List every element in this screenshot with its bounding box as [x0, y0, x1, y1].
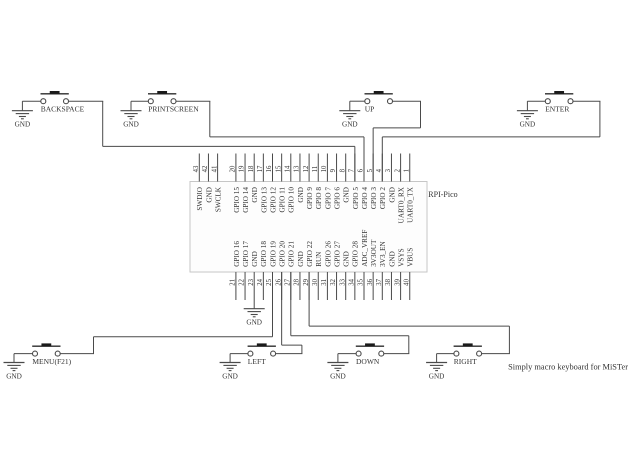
- pin 38 (GND) bottom: [385, 251, 396, 300]
- pin 32 (GPIO 27) bottom: [330, 241, 341, 300]
- wire SW3 GND riser: [349, 101, 351, 111]
- ground symbol (SW5): [4, 363, 25, 381]
- svg-text:40: 40: [403, 278, 410, 285]
- pushbutton SW7 (DOWN): [338, 343, 409, 366]
- svg-text:GPIO 26: GPIO 26: [324, 241, 332, 267]
- svg-text:33: 33: [339, 278, 346, 285]
- pin 7 (GPIO 5) top: [349, 154, 360, 210]
- ground symbol (IC): [244, 309, 265, 327]
- svg-text:VSYS: VSYS: [398, 248, 406, 266]
- svg-text:GPIO 6: GPIO 6: [333, 187, 341, 210]
- pin 31 (GPIO 26) bottom: [321, 241, 332, 300]
- svg-text:UP: UP: [365, 105, 375, 114]
- svg-text:GND: GND: [123, 121, 139, 129]
- svg-text:24: 24: [257, 278, 264, 285]
- wire SW6 GND riser: [229, 354, 231, 363]
- svg-text:GPIO 20: GPIO 20: [279, 241, 287, 267]
- pin 41 (SWCLK) top: [211, 154, 222, 213]
- svg-text:RPI-Pico: RPI-Pico: [428, 190, 457, 199]
- svg-text:GND: GND: [297, 187, 305, 203]
- pin 10 (GPIO 7) top: [321, 154, 332, 210]
- ground symbol (SW1): [12, 111, 33, 129]
- svg-text:GPIO 28: GPIO 28: [352, 241, 360, 267]
- wire pin 23 to ground: [253, 300, 255, 309]
- wire MENU(F21) to pin 25: [94, 272, 273, 354]
- svg-text:32: 32: [330, 278, 337, 285]
- svg-text:GND: GND: [251, 187, 259, 203]
- pin 28 (GND) bottom: [294, 251, 305, 300]
- pin 37 (3V3_EN) bottom: [376, 240, 387, 300]
- pushbutton SW1 (BACKSPACE): [22, 91, 103, 114]
- svg-text:GPIO 2: GPIO 2: [379, 187, 387, 210]
- ground symbol (SW2): [121, 111, 142, 129]
- svg-text:15: 15: [275, 165, 282, 172]
- wire UP to pin 5: [373, 101, 420, 181]
- svg-text:34: 34: [349, 278, 356, 285]
- svg-text:GPIO 3: GPIO 3: [370, 187, 378, 210]
- ground symbol (SW7): [327, 363, 348, 381]
- ground symbol (SW3): [339, 111, 360, 129]
- svg-text:3: 3: [385, 168, 392, 172]
- svg-text:SWDIO: SWDIO: [196, 187, 204, 211]
- pin 8 (GND) top: [339, 154, 350, 203]
- svg-text:16: 16: [266, 165, 273, 172]
- svg-text:36: 36: [367, 278, 374, 285]
- svg-text:13: 13: [294, 165, 301, 172]
- svg-text:41: 41: [211, 166, 218, 173]
- svg-text:BACKSPACE: BACKSPACE: [41, 105, 85, 114]
- pin 16 (GPIO 12) top: [266, 154, 277, 213]
- pin 22 (GPIO 17) bottom: [239, 241, 250, 300]
- IC U1 RPI-Pico body: [190, 182, 427, 273]
- svg-text:12: 12: [303, 165, 310, 172]
- pin 6 (GPIO 4) top: [358, 154, 369, 210]
- wire ENTER to pin 4: [382, 101, 600, 181]
- svg-text:GPIO 12: GPIO 12: [269, 187, 277, 213]
- svg-text:9: 9: [330, 168, 337, 172]
- svg-text:GPIO 22: GPIO 22: [306, 241, 314, 267]
- svg-text:GPIO 4: GPIO 4: [361, 187, 369, 210]
- pin 20 (GPIO 15) top: [230, 154, 241, 213]
- pin 15 (GPIO 11) top: [275, 154, 286, 213]
- svg-text:17: 17: [257, 165, 264, 172]
- pin 19 (GPIO 14) top: [239, 154, 250, 213]
- wire SW7 GND riser: [337, 354, 339, 363]
- svg-text:GPIO 19: GPIO 19: [269, 241, 277, 267]
- pushbutton SW4 (ENTER): [527, 91, 600, 114]
- svg-text:GND: GND: [388, 251, 396, 267]
- pin 27 (GPIO 21) bottom: [285, 241, 296, 300]
- svg-text:10: 10: [321, 165, 328, 172]
- svg-text:37: 37: [376, 278, 383, 285]
- pin 34 (GPIO 28) bottom: [349, 241, 360, 300]
- pin 40 (VBUS) bottom: [403, 248, 414, 300]
- svg-text:VBUS: VBUS: [407, 248, 415, 267]
- wire DOWN to pin 27: [291, 272, 409, 354]
- svg-text:20: 20: [230, 165, 237, 172]
- svg-text:39: 39: [394, 278, 401, 285]
- svg-text:14: 14: [285, 165, 292, 172]
- svg-text:28: 28: [294, 278, 301, 285]
- svg-text:35: 35: [358, 278, 365, 285]
- pin 33 (GND) bottom: [339, 251, 350, 300]
- wire PRINTSCREEN to pin 6: [210, 101, 364, 181]
- svg-text:GPIO 9: GPIO 9: [306, 187, 314, 210]
- svg-text:GND: GND: [251, 251, 259, 267]
- pushbutton SW8 (RIGHT): [437, 343, 510, 366]
- svg-text:UART0_RX: UART0_RX: [398, 186, 406, 223]
- pin 23 (GND) bottom: [248, 251, 259, 300]
- svg-text:GPIO 13: GPIO 13: [260, 187, 268, 213]
- pin 1 (UART0_TX) top: [403, 154, 414, 223]
- pin 11 (GPIO 8) top: [312, 154, 323, 210]
- svg-text:22: 22: [239, 278, 246, 285]
- pin 14 (GPIO 10) top: [285, 154, 296, 213]
- svg-text:GPIO 11: GPIO 11: [279, 187, 287, 213]
- svg-text:GND: GND: [342, 121, 358, 129]
- svg-text:GND: GND: [388, 187, 396, 203]
- pushbutton SW5 (MENU(F21)): [14, 343, 94, 366]
- svg-text:DOWN: DOWN: [356, 357, 380, 366]
- svg-text:8: 8: [339, 168, 346, 172]
- pin 12 (GPIO 9) top: [303, 154, 314, 210]
- ground symbol (SW8): [426, 363, 447, 381]
- pin 21 (GPIO 16) bottom: [230, 241, 241, 300]
- pin 30 (RUN) bottom: [312, 251, 323, 300]
- pushbutton SW6 (LEFT): [230, 343, 302, 366]
- svg-text:ADC_VREF: ADC_VREF: [361, 230, 369, 267]
- svg-text:21: 21: [230, 279, 237, 286]
- svg-text:MENU(F21): MENU(F21): [32, 357, 71, 366]
- wire SW1 GND riser: [21, 101, 23, 111]
- pin 35 (ADC_VREF) bottom: [358, 230, 369, 300]
- wire SW4 GND riser: [526, 101, 528, 111]
- svg-text:PRINTSCREEN: PRINTSCREEN: [148, 105, 199, 114]
- pin 24 (GPIO 18) bottom: [257, 241, 268, 300]
- svg-text:GPIO 7: GPIO 7: [324, 187, 332, 210]
- pin 4 (GPIO 2) top: [376, 154, 387, 210]
- pin 9 (GPIO 6) top: [330, 154, 341, 210]
- svg-text:ENTER: ENTER: [545, 105, 569, 114]
- pin 13 (GND) top: [294, 154, 305, 203]
- svg-text:GND: GND: [520, 121, 536, 129]
- pin 42 (GND) top: [202, 154, 213, 203]
- svg-text:GND: GND: [6, 372, 22, 380]
- svg-text:23: 23: [248, 278, 255, 285]
- svg-text:GND: GND: [15, 121, 31, 129]
- svg-text:3V3_EN: 3V3_EN: [379, 240, 387, 266]
- svg-text:GND: GND: [246, 319, 262, 327]
- svg-text:GND: GND: [222, 372, 238, 380]
- svg-text:30: 30: [312, 278, 319, 285]
- svg-text:GND: GND: [297, 251, 305, 267]
- svg-text:GPIO 18: GPIO 18: [260, 241, 268, 267]
- svg-text:RIGHT: RIGHT: [454, 357, 477, 366]
- wire SW5 GND riser: [13, 354, 15, 363]
- svg-text:GPIO 15: GPIO 15: [233, 187, 241, 213]
- svg-text:LEFT: LEFT: [248, 357, 266, 366]
- svg-text:43: 43: [193, 165, 200, 172]
- pin 2 (UART0_RX) top: [394, 154, 405, 224]
- pin 5 (GPIO 3) top: [367, 154, 378, 210]
- wire RIGHT to pin 29: [309, 272, 509, 354]
- svg-text:GPIO 21: GPIO 21: [288, 241, 296, 267]
- wire BACKSPACE to pin 7: [103, 101, 355, 181]
- svg-text:SWCLK: SWCLK: [215, 186, 223, 212]
- pin 39 (VSYS) bottom: [394, 248, 405, 300]
- svg-text:RUN: RUN: [315, 251, 323, 267]
- pushbutton SW3 (UP): [350, 91, 421, 114]
- pin 18 (GND) top: [248, 154, 259, 203]
- svg-text:GPIO 16: GPIO 16: [233, 241, 241, 267]
- svg-text:1: 1: [403, 169, 410, 172]
- svg-text:42: 42: [202, 165, 209, 172]
- svg-text:GPIO 17: GPIO 17: [242, 241, 250, 267]
- pin 26 (GPIO 20) bottom: [275, 241, 286, 300]
- svg-text:GPIO 8: GPIO 8: [315, 187, 323, 210]
- pin 17 (GPIO 13) top: [257, 154, 268, 213]
- pin 25 (GPIO 19) bottom: [266, 241, 277, 300]
- svg-text:GND: GND: [343, 251, 351, 267]
- svg-text:GPIO 5: GPIO 5: [352, 187, 360, 210]
- svg-text:GND: GND: [343, 187, 351, 203]
- ground symbol (SW4): [517, 111, 538, 129]
- wire LEFT to pin 26: [282, 272, 302, 354]
- svg-text:18: 18: [248, 165, 255, 172]
- svg-text:19: 19: [239, 165, 246, 172]
- pin 36 (3V3OUT) bottom: [367, 239, 378, 300]
- svg-text:GND: GND: [330, 372, 346, 380]
- svg-text:Simply macro keyboard for MiST: Simply macro keyboard for MiSTer: [508, 363, 628, 372]
- svg-text:GPIO 10: GPIO 10: [288, 187, 296, 213]
- pin 3 (GND) top: [385, 154, 396, 203]
- ground symbol (SW6): [220, 363, 241, 381]
- svg-text:3V3OUT: 3V3OUT: [370, 239, 378, 267]
- svg-text:GND: GND: [429, 372, 445, 380]
- svg-text:31: 31: [321, 279, 328, 286]
- svg-text:GPIO 27: GPIO 27: [333, 241, 341, 267]
- svg-text:38: 38: [385, 278, 392, 285]
- pin 43 (SWDIO) top: [193, 154, 204, 211]
- svg-text:UART0_TX: UART0_TX: [407, 186, 415, 223]
- wire SW2 GND riser: [130, 101, 132, 111]
- svg-text:11: 11: [312, 166, 319, 173]
- pushbutton SW2 (PRINTSCREEN): [131, 91, 210, 114]
- svg-text:GPIO 14: GPIO 14: [242, 187, 250, 213]
- svg-text:2: 2: [394, 168, 401, 172]
- wire SW8 GND riser: [436, 354, 438, 363]
- pin 29 (GPIO 22) bottom: [303, 241, 314, 300]
- svg-text:GND: GND: [205, 187, 213, 203]
